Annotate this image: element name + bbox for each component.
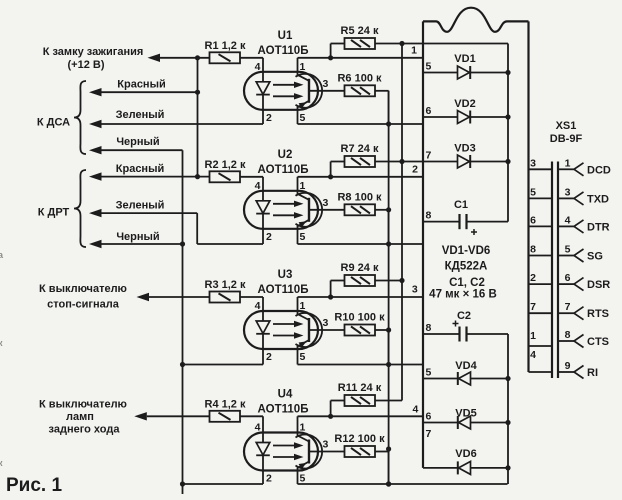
diode LED inside U2 bbox=[262, 191, 264, 201]
transistor (photo) inside U3 bbox=[308, 318, 310, 342]
svg-text:5: 5 bbox=[300, 112, 306, 124]
svg-text:7: 7 bbox=[565, 301, 571, 313]
svg-text:VD6: VD6 bbox=[455, 448, 476, 460]
svg-text:4: 4 bbox=[255, 422, 261, 434]
svg-text:2: 2 bbox=[266, 231, 272, 243]
svg-text:к: к bbox=[0, 338, 3, 348]
junction VD6/rail bbox=[505, 465, 510, 470]
diode LED inside U1 bbox=[262, 72, 264, 82]
junction R9/net1 bus bbox=[399, 278, 404, 283]
emitter arrow U2 bbox=[299, 221, 307, 227]
contact symbol pin 1 bbox=[574, 163, 584, 176]
svg-text:К выключателю: К выключателю bbox=[39, 283, 127, 295]
op-amp U3 optocoupler AOT110B body bbox=[244, 311, 318, 349]
wire VD2 row bbox=[423, 116, 508, 118]
diode VD1 bbox=[458, 66, 470, 79]
svg-text:6: 6 bbox=[530, 214, 536, 226]
emitter arrow U1 bbox=[299, 102, 307, 108]
wire R10 right bbox=[375, 329, 389, 331]
resistor R1 bbox=[210, 52, 241, 63]
junction R8 right/bus bbox=[386, 207, 391, 212]
junction R7/collector bbox=[328, 174, 333, 179]
svg-text:1: 1 bbox=[300, 61, 306, 73]
wire U3 emitter row to block bbox=[298, 364, 423, 366]
svg-text:RI: RI bbox=[587, 367, 598, 379]
brace DSA bbox=[74, 81, 86, 154]
wire 24k-common bus (net 1) bbox=[401, 44, 403, 401]
resistor R4 bbox=[210, 411, 241, 422]
svg-text:XS1: XS1 bbox=[556, 120, 577, 132]
wire black(ground) bus bbox=[182, 150, 184, 494]
svg-text:7: 7 bbox=[426, 150, 432, 162]
svg-text:VD3: VD3 bbox=[454, 143, 475, 155]
svg-text:3: 3 bbox=[530, 157, 536, 169]
transistor (photo) inside U1 bbox=[308, 79, 310, 103]
wire R8 right bbox=[375, 209, 389, 211]
wire R9 right bbox=[375, 280, 402, 282]
svg-text:АОТ110Б: АОТ110Б bbox=[258, 403, 309, 415]
emitter arrow U3 bbox=[299, 341, 307, 347]
svg-text:Красный: Красный bbox=[116, 163, 164, 175]
wire net1 into block / top rail bbox=[402, 43, 508, 45]
svg-text:8: 8 bbox=[426, 322, 432, 334]
junction R7/net1 bus bbox=[399, 159, 404, 164]
wire zeleny1 arrow bbox=[89, 120, 102, 128]
transistor (photo) inside U2 bbox=[308, 198, 310, 222]
junction ground bus/cherny2 bbox=[180, 241, 185, 246]
wire VD6 row bbox=[423, 467, 508, 469]
wire U3 pin4 lead bbox=[262, 297, 264, 311]
svg-text:К ДСА: К ДСА bbox=[37, 117, 70, 129]
wire VD5 row bbox=[423, 422, 508, 424]
wire R1 to U1 pin4 bbox=[240, 57, 263, 59]
wire green-DRT jog vertical bbox=[196, 213, 198, 244]
svg-text:VD2: VD2 bbox=[454, 98, 475, 110]
transistor arc U1 bbox=[296, 74, 323, 108]
wire cherny2 arrow bbox=[89, 240, 102, 248]
svg-text:R12 100 к: R12 100 к bbox=[334, 433, 385, 445]
svg-text:R3 1,2 к: R3 1,2 к bbox=[205, 279, 246, 291]
svg-text:Черный: Черный bbox=[116, 231, 159, 243]
wire U2 pin4 lead bbox=[262, 177, 264, 191]
junction U3 pin2/ground bus bbox=[180, 362, 185, 367]
junction U4 pin2/ground bus bbox=[180, 481, 185, 486]
wire cherny1 arrow bbox=[89, 146, 102, 154]
wire VD4 row bbox=[423, 378, 508, 380]
svg-text:6: 6 bbox=[426, 411, 432, 423]
junction VD5/rail bbox=[505, 420, 510, 425]
wire U1 pin1 lead bbox=[297, 58, 299, 72]
svg-text:4: 4 bbox=[255, 61, 261, 73]
junction +12V/krasny1 bbox=[195, 90, 200, 95]
wire DB9 pin 3 bbox=[558, 197, 574, 199]
wire base U1 to R6 bbox=[310, 90, 345, 92]
svg-text:8: 8 bbox=[426, 210, 432, 222]
svg-text:ламп: ламп bbox=[66, 411, 94, 423]
svg-text:Рис. 1: Рис. 1 bbox=[6, 475, 62, 496]
contact symbol pin 5 bbox=[574, 249, 584, 262]
wire DB9 pin 1 bbox=[558, 168, 574, 170]
svg-text:Зеленый: Зеленый bbox=[116, 109, 165, 121]
wire R9 left drop bbox=[330, 281, 332, 298]
svg-text:CTS: CTS bbox=[587, 336, 609, 348]
wire R5 right bbox=[375, 43, 402, 45]
svg-text:R10 100 к: R10 100 к bbox=[334, 312, 385, 324]
resistor R2 bbox=[210, 171, 241, 182]
wire DB9 pin 9 bbox=[558, 371, 574, 373]
junction +12V/R1 row bbox=[195, 55, 200, 60]
contact symbol pin 7 bbox=[574, 307, 584, 320]
svg-text:RTS: RTS bbox=[587, 308, 609, 320]
svg-text:C1: C1 bbox=[454, 199, 468, 211]
svg-text:3: 3 bbox=[412, 284, 418, 296]
junction R5/net1 bus bbox=[399, 41, 404, 46]
resistor R3 bbox=[210, 292, 241, 303]
wire +12V input arrow bbox=[148, 54, 161, 62]
wire DB9 pin 7 bbox=[558, 312, 574, 314]
wire zeleny1 to U1 pin2 bbox=[102, 123, 264, 125]
svg-text:2: 2 bbox=[266, 351, 272, 363]
contact symbol pin 4 bbox=[574, 220, 584, 233]
wire stop-signal to R3 bbox=[149, 296, 210, 298]
wire reverse-lamp arrow bbox=[134, 412, 147, 420]
junction +12V/krasny2 bbox=[195, 174, 200, 179]
svg-text:Зеленый: Зеленый bbox=[116, 200, 165, 212]
svg-text:3: 3 bbox=[323, 439, 329, 451]
wire block pin 5 stub bbox=[529, 197, 552, 199]
light arrows U1 bbox=[273, 84, 296, 86]
wire U1 collector row to block bbox=[298, 57, 423, 59]
svg-text:АОТ110Б: АОТ110Б bbox=[258, 164, 309, 176]
contact symbol pin 6 bbox=[574, 278, 584, 291]
wire U1 pin2 drop bbox=[262, 110, 264, 124]
svg-text:1: 1 bbox=[565, 157, 571, 169]
junction R12 right/bus bbox=[386, 446, 391, 451]
svg-text:5: 5 bbox=[530, 186, 536, 198]
svg-text:U1: U1 bbox=[278, 30, 293, 42]
wire U2 collector row to block bbox=[298, 176, 423, 178]
svg-text:заднего хода: заднего хода bbox=[49, 424, 121, 436]
junction R5/collector bbox=[328, 55, 333, 60]
wire R11 left bbox=[331, 400, 345, 402]
svg-text:6: 6 bbox=[565, 272, 571, 284]
wire R9 left bbox=[331, 280, 345, 282]
wire cherny2 bbox=[102, 243, 183, 245]
svg-text:стоп-сигнала: стоп-сигнала bbox=[47, 299, 120, 311]
wire U4 pin4 lead bbox=[262, 416, 264, 432]
wire U4 collector row to block bbox=[298, 415, 423, 417]
transistor (photo) inside U4 bbox=[308, 440, 310, 464]
svg-text:КД522А: КД522А bbox=[445, 261, 488, 273]
wire U3 pin2 drop bbox=[262, 349, 264, 365]
wire R10 drop bbox=[388, 330, 390, 365]
diode LED inside U3 bbox=[262, 311, 264, 321]
wire +12V to R1 bbox=[160, 57, 210, 59]
wire block pin 8 stub bbox=[529, 255, 552, 257]
svg-text:1: 1 bbox=[411, 45, 417, 57]
junction R8/emitter bbox=[386, 241, 391, 246]
svg-text:VD1-VD6: VD1-VD6 bbox=[442, 245, 491, 257]
transistor arc U4 bbox=[296, 434, 323, 468]
capacitor C1 bbox=[423, 221, 460, 223]
brace DRT bbox=[74, 170, 86, 247]
wire right rail (top section) bbox=[507, 44, 509, 222]
transistor arc U2 bbox=[296, 193, 323, 227]
resistor R10 bbox=[345, 325, 376, 336]
wire krasny2 to R2 bbox=[102, 176, 210, 178]
wire zeleny2 lower to U2 pin2 bbox=[197, 243, 263, 245]
svg-text:U2: U2 bbox=[278, 149, 293, 161]
svg-text:С1, С2: С1, С2 bbox=[449, 277, 485, 289]
wire cherny1 bbox=[102, 149, 183, 151]
diode VD6 bbox=[459, 461, 471, 474]
svg-text:SG: SG bbox=[587, 251, 603, 263]
wire +12V bus bbox=[197, 58, 199, 177]
svg-text:8: 8 bbox=[530, 244, 536, 256]
light arrows U4 bbox=[273, 445, 296, 447]
diode LED inside U4 bbox=[262, 433, 264, 443]
wire block pin 1 stub bbox=[529, 345, 552, 347]
wire DB9 pin 8 bbox=[558, 340, 574, 342]
block right edge bbox=[527, 21, 529, 372]
resistor R9 bbox=[345, 275, 376, 286]
wire U2 emitter row to block bbox=[298, 243, 423, 245]
svg-text:C2: C2 bbox=[457, 310, 471, 322]
svg-text:8: 8 bbox=[565, 329, 571, 341]
svg-text:TXD: TXD bbox=[587, 193, 609, 205]
wire DB9 pin 5 bbox=[558, 255, 574, 257]
junction R12/emitter bbox=[386, 481, 391, 486]
wire U2 pin2 drop bbox=[262, 229, 264, 244]
svg-text:4: 4 bbox=[255, 180, 261, 192]
junction VD3/rail bbox=[505, 159, 510, 164]
light arrows U2 bbox=[273, 203, 296, 205]
svg-text:DCD: DCD bbox=[587, 164, 611, 176]
wire R6 drop bbox=[388, 91, 390, 124]
svg-text:5: 5 bbox=[565, 244, 571, 256]
wire base U4 to R12 bbox=[310, 451, 345, 453]
wire U3 collector row to block bbox=[298, 296, 423, 298]
wire U4 pin2 to ground bus bbox=[183, 483, 264, 485]
svg-text:R5 24 к: R5 24 к bbox=[341, 25, 379, 37]
block left edge bbox=[422, 21, 424, 468]
svg-text:1: 1 bbox=[530, 330, 536, 342]
svg-text:R4 1,2 к: R4 1,2 к bbox=[205, 398, 246, 410]
wire R7 left bbox=[331, 161, 345, 163]
svg-text:DB-9F: DB-9F bbox=[550, 133, 583, 145]
svg-text:к: к bbox=[0, 458, 3, 468]
svg-text:VD5: VD5 bbox=[455, 408, 476, 420]
svg-text:2: 2 bbox=[266, 112, 272, 124]
connector face line 1 bbox=[551, 162, 553, 379]
svg-text:5: 5 bbox=[300, 351, 306, 363]
svg-text:1: 1 bbox=[300, 180, 306, 192]
wire R5 left bbox=[331, 43, 345, 45]
wire R12 drop bbox=[388, 452, 390, 485]
wire U4 pin2 drop bbox=[262, 471, 264, 485]
svg-text:АОТ110Б: АОТ110Б bbox=[258, 45, 309, 57]
svg-text:9: 9 bbox=[565, 360, 571, 372]
wire R5 left drop bbox=[330, 44, 332, 58]
svg-text:3: 3 bbox=[565, 186, 571, 198]
contact symbol pin 8 bbox=[574, 335, 584, 348]
svg-text:7: 7 bbox=[530, 301, 536, 313]
wire U1 pin5 drop bbox=[297, 110, 299, 124]
wire DB9 pin 6 bbox=[558, 283, 574, 285]
connector face line 2 bbox=[557, 162, 559, 379]
wire R12 right bbox=[375, 451, 389, 453]
wire right rail (bottom section) bbox=[507, 334, 509, 484]
svg-text:4: 4 bbox=[412, 404, 418, 416]
wire block pin 6 stub bbox=[529, 225, 552, 227]
junction R6/emitter bbox=[386, 121, 391, 126]
wire R11 left drop bbox=[330, 401, 332, 417]
wire R4 to U4 pin4 bbox=[240, 415, 263, 417]
diode VD5 bbox=[459, 416, 471, 429]
resistor R12 bbox=[345, 446, 376, 457]
svg-text:R9 24 к: R9 24 к bbox=[341, 262, 379, 274]
svg-text:2: 2 bbox=[266, 473, 272, 485]
light arrows U3 bbox=[273, 323, 296, 325]
wire krasny2 arrow bbox=[89, 172, 102, 180]
junction VD2/rail bbox=[505, 114, 510, 119]
wire R7 left drop bbox=[330, 162, 332, 177]
wire U4 pin5 drop bbox=[297, 471, 299, 485]
svg-text:4: 4 bbox=[565, 214, 571, 226]
svg-text:R11 24 к: R11 24 к bbox=[338, 382, 382, 394]
resistor R5 bbox=[345, 38, 376, 49]
svg-text:3: 3 bbox=[323, 317, 329, 329]
svg-text:5: 5 bbox=[300, 473, 306, 485]
capacitor C2 bbox=[423, 333, 460, 335]
junction R9/collector bbox=[328, 294, 333, 299]
svg-text:К выключателю: К выключателю bbox=[39, 399, 127, 411]
svg-text:АОТ110Б: АОТ110Б bbox=[258, 284, 309, 296]
junction R10/emitter bbox=[386, 362, 391, 367]
svg-text:1: 1 bbox=[300, 300, 306, 312]
svg-text:2: 2 bbox=[530, 272, 536, 284]
emitter arrow U4 bbox=[299, 463, 307, 469]
svg-text:4: 4 bbox=[255, 300, 261, 312]
svg-text:К ДРТ: К ДРТ bbox=[38, 207, 70, 219]
op-amp U4 optocoupler AOT110B body bbox=[244, 433, 318, 471]
svg-text:R2 1,2 к: R2 1,2 к bbox=[205, 159, 246, 171]
wire base U3 to R10 bbox=[310, 329, 345, 331]
svg-text:3: 3 bbox=[323, 197, 329, 209]
wire block pin 2 stub bbox=[529, 283, 552, 285]
wire R7 right bbox=[375, 161, 402, 163]
wire DB9 pin 4 bbox=[558, 225, 574, 227]
junction R10 right/bus bbox=[386, 327, 391, 332]
wire U1 emitter row to block bbox=[298, 123, 423, 125]
wire U2 pin5 drop bbox=[297, 229, 299, 244]
svg-text:47 мк × 16 В: 47 мк × 16 В bbox=[429, 289, 497, 301]
junction VD1/rail bbox=[505, 70, 510, 75]
wire reverse-lamp to R4 bbox=[147, 415, 210, 417]
contact symbol pin 9 bbox=[574, 366, 584, 379]
wire U4 pin1 lead bbox=[297, 416, 299, 432]
wire U3 pin1 lead bbox=[297, 297, 299, 311]
resistor R11 bbox=[345, 395, 376, 406]
svg-text:Красный: Красный bbox=[117, 79, 165, 91]
svg-text:R6 100 к: R6 100 к bbox=[337, 72, 382, 84]
junction bus/bottom ground wire bbox=[386, 481, 391, 486]
diode VD3 bbox=[458, 155, 470, 168]
svg-text:DTR: DTR bbox=[587, 221, 610, 233]
wire block pin 7 stub bbox=[529, 312, 552, 314]
op-amp U2 optocoupler AOT110B body bbox=[244, 191, 318, 229]
svg-text:6: 6 bbox=[426, 105, 432, 117]
wire VD1 row bbox=[423, 72, 508, 74]
resistor R6 bbox=[345, 85, 376, 96]
resistor R8 bbox=[345, 204, 376, 215]
wire krasny1 bbox=[102, 91, 198, 93]
transistor arc U3 bbox=[296, 313, 323, 347]
svg-text:VD1: VD1 bbox=[454, 53, 475, 65]
wire stop-signal arrow bbox=[137, 293, 150, 301]
resistor R7 bbox=[345, 156, 376, 167]
svg-text:5: 5 bbox=[426, 367, 432, 379]
wire U3 pin2 to ground bus bbox=[183, 364, 264, 366]
diode VD2 bbox=[458, 111, 470, 124]
wire R2 to U2 pin4 bbox=[240, 176, 263, 178]
svg-text:U4: U4 bbox=[278, 388, 293, 400]
junction VD4/rail bbox=[505, 376, 510, 381]
connector block outline (wavy cable top) bbox=[423, 8, 529, 32]
wire R8 drop bbox=[388, 210, 390, 244]
svg-text:R7 24 к: R7 24 к bbox=[341, 143, 379, 155]
wire VD3 row bbox=[402, 161, 508, 163]
svg-text:4: 4 bbox=[530, 349, 536, 361]
svg-text:а: а bbox=[0, 250, 4, 260]
wire base U2 to R8 bbox=[310, 209, 345, 211]
svg-text:5: 5 bbox=[426, 61, 432, 73]
wire zeleny2 arrow bbox=[89, 209, 102, 217]
wire R3 to U3 pin4 bbox=[240, 296, 263, 298]
svg-text:3: 3 bbox=[323, 78, 329, 90]
wire U3 pin5 drop bbox=[297, 349, 299, 365]
op-amp U1 optocoupler AOT110B body bbox=[244, 72, 318, 110]
svg-text:1: 1 bbox=[300, 422, 306, 434]
svg-text:R1 1,2 к: R1 1,2 к bbox=[205, 40, 246, 52]
wire U4 emitter/ground row to block rail bbox=[298, 483, 508, 485]
wire U2 pin1 lead bbox=[297, 177, 299, 191]
junction R11/collector bbox=[328, 414, 333, 419]
wire krasny1 arrow bbox=[89, 88, 102, 96]
svg-text:5: 5 bbox=[300, 231, 306, 243]
svg-text:U3: U3 bbox=[278, 269, 293, 281]
diode VD4 bbox=[459, 372, 471, 385]
svg-text:R8 100 к: R8 100 к bbox=[337, 191, 382, 203]
wire emitter-common bus bbox=[388, 91, 390, 484]
svg-text:DSR: DSR bbox=[587, 279, 610, 291]
svg-text:Черный: Черный bbox=[116, 136, 159, 148]
svg-text:(+12 В): (+12 В) bbox=[68, 59, 105, 71]
wire RI stub bbox=[529, 371, 552, 373]
svg-text:VD4: VD4 bbox=[455, 360, 477, 372]
svg-text:К замку зажигания: К замку зажигания bbox=[43, 46, 144, 58]
svg-text:7: 7 bbox=[426, 428, 432, 440]
wire zeleny2 bbox=[102, 212, 198, 214]
wire R11 right bbox=[375, 400, 402, 402]
wire block pin 3 stub bbox=[529, 168, 552, 170]
wire U1 pin4 lead bbox=[262, 58, 264, 72]
svg-text:2: 2 bbox=[412, 164, 418, 176]
wire R6 right bbox=[375, 90, 389, 92]
contact symbol pin 3 bbox=[574, 192, 584, 205]
